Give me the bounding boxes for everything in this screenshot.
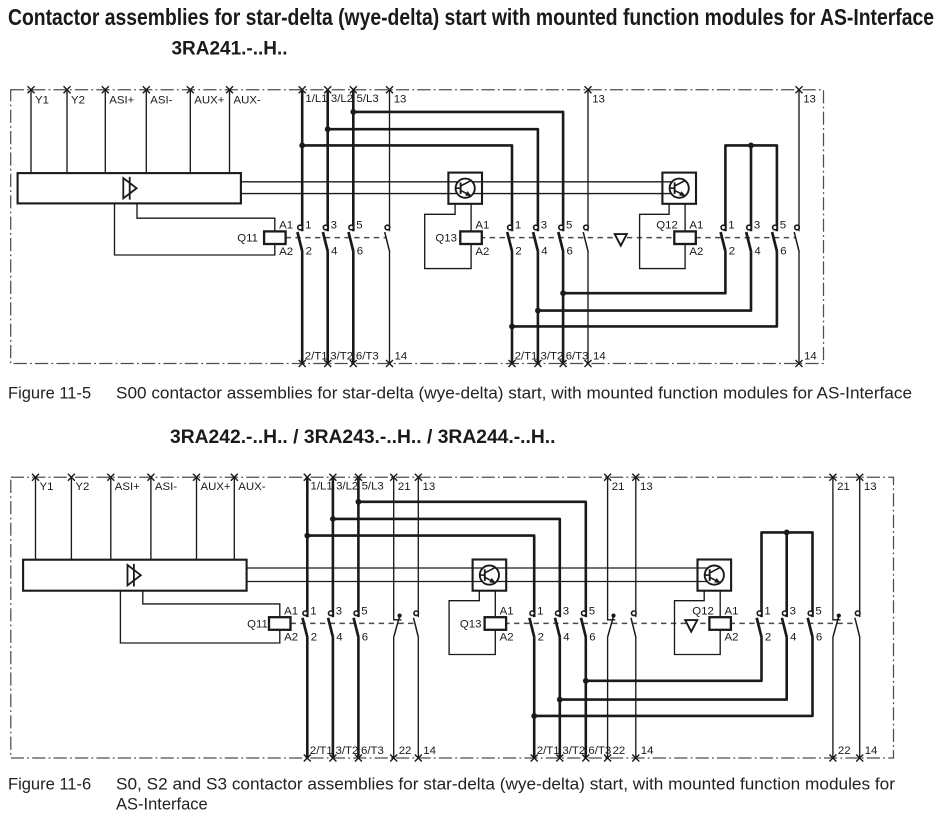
delta return wire 2 [538,252,751,311]
svg-text:A1: A1 [279,220,293,232]
contact Q12-1/2 blade/circle [757,618,762,638]
svg-text:A2: A2 [689,246,703,258]
svg-text:AUX+: AUX+ [194,95,224,107]
auxiliary contact line 21/22 [832,477,834,620]
junction dot delta return [557,697,563,703]
wire Q13 module to coil A1 [494,591,496,618]
svg-text:A2: A2 [279,246,293,258]
terminal AUX+ wire [196,477,198,560]
svg-text:13: 13 [803,93,816,105]
terminal AUX- wire [233,477,235,560]
figure border (dash-dot phantom frame) Figure 11-5 schematic [11,90,824,364]
svg-text:6/T3: 6/T3 [356,351,379,363]
svg-text:S00 contactor assemblies for s: S00 contactor assemblies for star-delta … [116,385,912,403]
svg-text:3RA242.-..H.. / 3RA243.-..H..: 3RA242.-..H.. / 3RA243.-..H.. / 3RA244.-… [170,427,556,448]
mechanical linkage dashed line segment 2 [485,622,856,624]
svg-text:6: 6 [362,631,368,643]
wire Q13 module to coil A1 [470,204,472,232]
svg-text:3: 3 [331,220,337,232]
svg-text:6/T3: 6/T3 [361,745,384,757]
auxiliary contact line 21/22 [393,477,395,620]
module output wire upper [241,181,679,183]
terminal ASI- wire [145,90,147,173]
function module box above Q13 (transistor symbol) [448,173,482,204]
power line 5/L3 / contact Q11-5/6 [352,90,355,232]
svg-text:AUX+: AUX+ [201,481,231,493]
svg-text:4: 4 [336,631,342,643]
svg-text:Figure 11-5: Figure 11-5 [8,385,91,403]
terminal Y1 wire [35,477,37,560]
svg-text:14: 14 [865,745,878,757]
contact Q12-1/2 blade/circle [721,232,726,252]
terminal ASI+ wire [104,90,106,173]
delta bridge middle riser [785,532,788,617]
svg-text:Y2: Y2 [75,481,89,493]
svg-text:21: 21 [612,481,625,493]
terminal AUX- wire [229,90,231,173]
svg-text:4: 4 [790,631,796,643]
svg-text:21: 21 [398,481,411,493]
svg-text:Q11: Q11 [247,618,268,630]
auxiliary contact line 13/14 [417,477,419,617]
svg-text:5/L3: 5/L3 [357,93,379,105]
svg-text:22: 22 [613,745,626,757]
contact Q12-3/4 blade/circle [782,618,787,638]
svg-text:14: 14 [593,351,606,363]
svg-text:2: 2 [515,246,521,258]
svg-text:5: 5 [361,605,367,617]
contactor coil Q13 (star) [485,617,507,630]
terminal ASI- wire [150,477,152,560]
contactor coil Q13 (star) [460,231,482,244]
module output wire upper [247,567,715,569]
wire module to Q11 coil A1 [143,591,280,618]
svg-text:S0, S2 and S3 contactor assemb: S0, S2 and S3 contactor assemblies for s… [116,776,896,794]
wire Q12 module to coil A1 [684,204,686,232]
contact Q13-3/4 line [537,252,540,364]
svg-text:3: 3 [336,605,342,617]
svg-text:14: 14 [423,745,436,757]
figure border (dash-dot phantom frame) Figure 11-6 schematic [11,477,894,758]
svg-text:5: 5 [815,605,821,617]
function module box above Q12 (transistor symbol) [698,560,732,591]
junction dot on delta bridge bar [784,530,790,536]
svg-text:6: 6 [816,631,822,643]
svg-text:22: 22 [399,745,412,757]
power line 5/L3 / contact Q11-5/6 [357,477,360,617]
auxiliary contact line 13/14 [859,477,861,617]
terminal ASI+ wire [110,477,112,560]
wire Q13 module to coil A2 (loop) [449,591,495,655]
svg-text:6: 6 [357,246,363,258]
contact Q13-5/6 line [562,252,565,364]
svg-text:1/L1: 1/L1 [311,480,333,492]
terminal Y2 wire [66,90,68,173]
svg-text:6: 6 [780,246,786,258]
function module box above Q13 (transistor symbol) [473,560,507,591]
svg-text:3: 3 [790,605,796,617]
junction dot on delta bridge bar [748,143,754,149]
svg-text:1: 1 [310,605,316,617]
delta bridge middle riser [750,145,753,231]
svg-text:13: 13 [640,481,653,493]
contact Q13-1/2 line [533,638,536,758]
svg-text:AS-Interface: AS-Interface [116,796,208,814]
mechanical linkage dashed line segment 1 [291,622,416,624]
svg-text:4: 4 [563,631,569,643]
svg-text:1: 1 [305,220,311,232]
contactor coil Q11 [269,617,291,630]
svg-text:A1: A1 [725,605,739,617]
svg-text:3RA241.-..H..: 3RA241.-..H.. [172,39,288,60]
mechanical linkage dashed line segment 2 [460,237,795,239]
svg-text:14: 14 [804,351,817,363]
svg-text:Y1: Y1 [40,481,54,493]
junction dot delta return [531,713,537,719]
contactor coil Q11 [264,231,286,244]
auxiliary contact line 13/14 [389,90,391,232]
svg-text:3/L2: 3/L2 [331,93,353,105]
contactor coil Q12 (delta) [709,617,731,630]
contact Q13-3/4 line [558,638,561,758]
auxiliary contact line 13/14 [635,477,637,617]
svg-text:2/T1: 2/T1 [515,351,538,363]
power line 3/L2 / contact Q11-3/4 [332,477,335,617]
contactor coil Q12 (delta) [674,231,696,244]
contact Q13-1/2 line [511,252,514,364]
module output wire lower [241,193,679,195]
svg-text:22: 22 [838,745,851,757]
contact Q12-3/4 blade/circle [746,232,751,252]
delta return wire 1 [563,252,725,293]
svg-text:A1: A1 [500,605,514,617]
power line 3/L2 / contact Q11-3/4 [326,90,329,232]
svg-text:AUX-: AUX- [234,95,261,107]
AS-Interface module U1 (box with AS-i symbol) [23,560,247,591]
svg-text:14: 14 [641,745,654,757]
auxiliary contact line 13/14 [798,90,800,232]
svg-text:13: 13 [423,481,436,493]
power line 1/L1 / contact Q11-1/2 [301,90,304,232]
wire Q12 module to coil A2 (loop) [640,204,686,269]
delta symbol [685,620,697,632]
delta return wire 3 [512,252,777,326]
svg-text:1: 1 [537,605,543,617]
svg-text:2: 2 [765,631,771,643]
svg-text:2: 2 [729,246,735,258]
svg-text:Y2: Y2 [71,95,85,107]
terminal AUX+ wire [189,90,191,173]
svg-text:Contactor assemblies for star-: Contactor assemblies for star-delta (wye… [8,4,934,30]
svg-text:3/L2: 3/L2 [336,480,358,492]
terminal Y2 wire [70,477,72,560]
svg-text:A2: A2 [284,632,298,644]
svg-text:3/T2: 3/T2 [562,745,585,757]
tap from 1/L1 to star contactor bank [302,145,512,231]
tap from 3/L2 to star contactor bank [333,519,560,617]
svg-text:A2: A2 [500,632,514,644]
svg-text:13: 13 [592,93,605,105]
junction dot delta return [509,324,515,330]
delta bridge bar (top loop) [762,532,813,617]
svg-text:3: 3 [563,605,569,617]
svg-text:AUX-: AUX- [238,481,265,493]
svg-text:A1: A1 [475,220,489,232]
svg-text:2: 2 [538,631,544,643]
svg-text:ASI-: ASI- [150,95,172,107]
svg-text:21: 21 [837,481,850,493]
svg-text:Y1: Y1 [35,95,49,107]
contact Q12-5/6 blade/circle [808,618,813,638]
svg-text:1/L1: 1/L1 [305,93,327,105]
wire module to Q11 coil A2 [120,591,279,643]
tap from 3/L2 to star contactor bank [328,129,538,231]
svg-text:5: 5 [780,220,786,232]
svg-text:1: 1 [515,220,521,232]
svg-text:ASI+: ASI+ [115,481,140,493]
svg-text:4: 4 [541,246,547,258]
junction dot delta return [560,290,566,296]
svg-text:Q11: Q11 [237,233,258,245]
module output wire lower [247,581,715,583]
transistor symbol in circle (Q12 module) [670,179,689,198]
svg-text:2/T1: 2/T1 [310,745,333,757]
tap from 5/L3 to star contactor bank [353,112,563,231]
power line 1/L1 / contact Q11-1/2 [306,477,309,617]
wire module to Q11 coil A2 [115,203,275,255]
AS-Interface module U1 (box with AS-i symbol) [18,173,241,203]
svg-text:A1: A1 [689,220,703,232]
svg-text:A2: A2 [725,632,739,644]
svg-text:5: 5 [356,220,362,232]
tap from 1/L1 to star contactor bank [307,536,534,618]
svg-text:Q12: Q12 [656,220,678,232]
svg-text:ASI+: ASI+ [109,95,134,107]
svg-text:1: 1 [728,220,734,232]
transistor symbol in circle (Q12 module) [705,566,724,585]
svg-text:3: 3 [754,220,760,232]
contact Q13-5/6 line [584,638,587,758]
svg-text:5: 5 [566,220,572,232]
delta return wire 2 [560,638,787,700]
tap from 5/L3 to star contactor bank [358,502,585,617]
junction dot delta return [583,678,589,684]
svg-text:6: 6 [567,246,573,258]
svg-text:ASI-: ASI- [155,481,177,493]
svg-text:5/L3: 5/L3 [362,480,384,492]
terminal Y1 wire [30,90,32,173]
wire module to Q11 coil A1 [137,203,275,231]
svg-text:1: 1 [764,605,770,617]
delta bridge bar (top loop) [725,145,777,231]
svg-text:Q13: Q13 [435,233,457,245]
wire Q13 module to coil A2 (loop) [425,204,471,269]
svg-text:Q13: Q13 [460,618,482,630]
wire Q12 module to coil A1 [719,591,721,618]
transistor symbol in circle (Q13 module) [456,179,475,198]
svg-text:Q12: Q12 [692,605,714,617]
mechanical linkage dashed line segment 1 [286,237,387,239]
transistor symbol in circle (Q13 module) [480,566,499,585]
delta symbol [615,234,627,246]
svg-text:13: 13 [394,93,407,105]
svg-text:A1: A1 [284,605,298,617]
svg-text:2: 2 [311,631,317,643]
svg-text:4: 4 [331,246,337,258]
svg-text:6: 6 [589,631,595,643]
svg-text:A2: A2 [475,246,489,258]
wire Q12 module to coil A2 (loop) [675,591,721,655]
svg-text:2: 2 [306,246,312,258]
delta return wire 3 [534,638,812,716]
junction dot delta return [535,308,541,314]
svg-text:5: 5 [589,605,595,617]
svg-text:13: 13 [864,481,877,493]
svg-text:3: 3 [541,220,547,232]
auxiliary contact line 13/14 [587,90,589,232]
contact Q12-5/6 blade/circle [772,232,777,252]
delta return wire 1 [586,638,762,681]
svg-text:4: 4 [754,246,760,258]
svg-text:14: 14 [395,351,408,363]
svg-text:Figure 11-6: Figure 11-6 [8,776,91,794]
function module box above Q12 (transistor symbol) [662,173,696,204]
auxiliary contact line 21/22 [607,477,609,620]
svg-text:2/T1: 2/T1 [537,745,560,757]
